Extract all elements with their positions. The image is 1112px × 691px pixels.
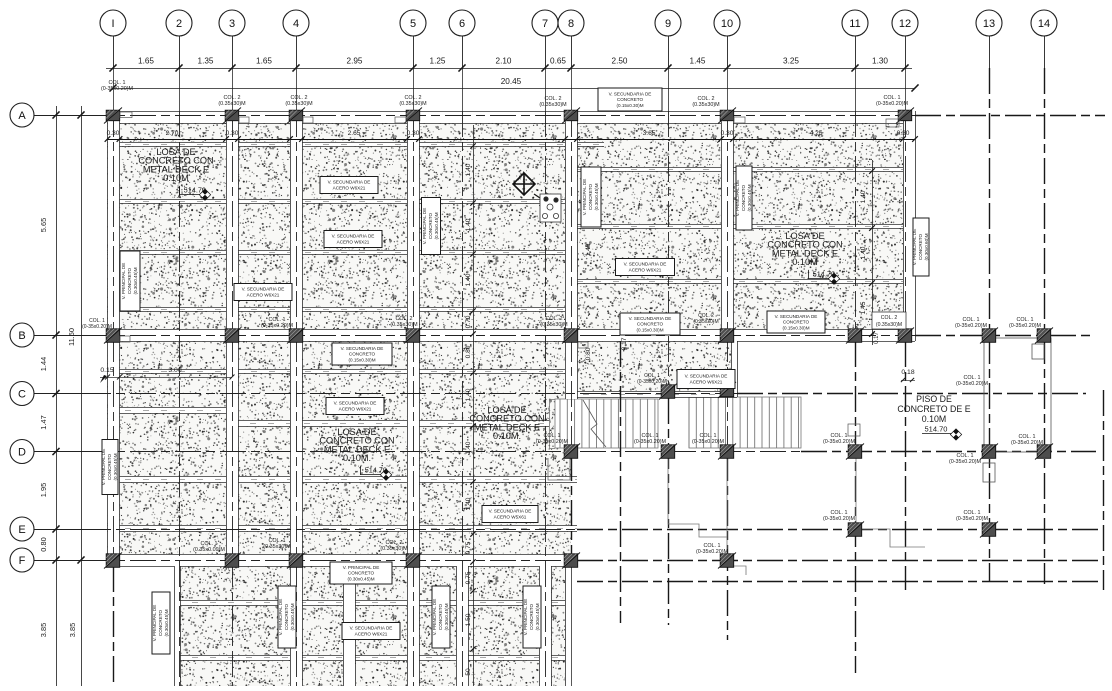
svg-text:I: I <box>111 18 114 30</box>
svg-text:(0-35x0.20)M: (0-35x0.20)M <box>696 549 729 555</box>
svg-text:0.75: 0.75 <box>465 541 472 554</box>
svg-text:COL. 1: COL. 1 <box>699 433 716 439</box>
svg-text:6: 6 <box>459 18 465 30</box>
svg-text:1.40: 1.40 <box>860 190 867 203</box>
svg-text:E: E <box>18 524 25 536</box>
svg-text:1.35: 1.35 <box>198 57 214 66</box>
svg-text:4.25: 4.25 <box>810 130 823 137</box>
svg-text:8: 8 <box>568 18 574 30</box>
svg-text:(0.15x0.30)M: (0.15x0.30)M <box>616 103 643 108</box>
svg-text:2.10: 2.10 <box>496 57 512 66</box>
svg-text:1.44: 1.44 <box>39 357 48 371</box>
svg-text:1.40: 1.40 <box>585 243 592 256</box>
svg-text:CONCRETO: CONCRETO <box>637 322 664 327</box>
svg-text:(0.30x0.45)M: (0.30x0.45)M <box>747 184 752 211</box>
svg-text:3.65: 3.65 <box>643 130 656 137</box>
svg-text:PISO DE: PISO DE <box>916 394 952 404</box>
svg-text:(0.30x0.45)M: (0.30x0.45)M <box>594 183 599 210</box>
svg-text:V. PRINCIPAL DE: V. PRINCIPAL DE <box>278 599 283 636</box>
svg-text:0.17: 0.17 <box>621 337 628 350</box>
svg-text:1.40: 1.40 <box>465 497 472 510</box>
svg-text:V. SECUNDARIA DE: V. SECUNDARIA DE <box>341 346 384 351</box>
svg-text:1.45: 1.45 <box>690 57 706 66</box>
svg-text:(0.35x0.09)M: (0.35x0.09)M <box>193 547 225 553</box>
svg-text:1.40: 1.40 <box>465 441 472 454</box>
svg-text:V. PRINCIPAL DE: V. PRINCIPAL DE <box>101 449 106 486</box>
svg-text:5.65: 5.65 <box>39 218 48 232</box>
svg-text:CONCRETO: CONCRETO <box>529 603 534 630</box>
svg-text:3.85: 3.85 <box>39 623 48 637</box>
svg-text:(0-35x0.20)M: (0-35x0.20)M <box>634 439 667 445</box>
svg-text:13: 13 <box>983 18 995 30</box>
svg-text:(0.30x0.45)M: (0.30x0.45)M <box>113 453 118 480</box>
svg-text:V. SECUNDARIA DE: V. SECUNDARIA DE <box>685 374 728 379</box>
svg-text:CONCRETO: CONCRETO <box>348 571 375 576</box>
svg-text:1.25: 1.25 <box>430 57 446 66</box>
svg-text:3.25: 3.25 <box>783 57 799 66</box>
svg-text:CONCRETO: CONCRETO <box>284 603 289 630</box>
svg-text:COL. 1: COL. 1 <box>703 543 720 549</box>
svg-text:(0.35x30)M: (0.35x30)M <box>218 101 246 107</box>
svg-text:V. PRINCIPAL DE: V. PRINCIPAL DE <box>912 229 917 266</box>
svg-text:(0-35x0.20)M: (0-35x0.20)M <box>82 324 112 330</box>
svg-text:(0.30x0.45)M: (0.30x0.45)M <box>444 603 449 630</box>
svg-text:10: 10 <box>721 18 733 30</box>
svg-text:CONCRETO: CONCRETO <box>617 97 644 102</box>
svg-text:0.30: 0.30 <box>107 130 120 137</box>
svg-text:COL. 1: COL. 1 <box>1018 434 1035 440</box>
svg-text:1.40: 1.40 <box>465 163 472 176</box>
svg-text:(0.30x0.45)M: (0.30x0.45)M <box>164 609 169 636</box>
svg-text:0.65: 0.65 <box>550 57 566 66</box>
svg-text:CONCRETO: CONCRETO <box>158 609 163 636</box>
svg-text:(0-35x0.20)M: (0-35x0.20)M <box>692 439 725 445</box>
svg-text:(0.35x30)M: (0.35x30)M <box>692 102 720 108</box>
svg-text:0.80: 0.80 <box>465 345 472 358</box>
svg-text:COL. 1: COL. 1 <box>641 433 658 439</box>
svg-text:50: 50 <box>465 668 472 676</box>
svg-text:CONCRETO: CONCRETO <box>438 603 443 630</box>
svg-text:0.70: 0.70 <box>465 315 472 328</box>
svg-text:11.50: 11.50 <box>67 328 76 346</box>
svg-text:COL. 2: COL. 2 <box>881 315 898 321</box>
svg-text:COL. 2: COL. 2 <box>544 96 561 102</box>
svg-text:CONCRETO: CONCRETO <box>107 453 112 480</box>
svg-text:ACERO W6X21: ACERO W6X21 <box>247 293 280 298</box>
svg-text:COL. 1: COL. 1 <box>830 433 847 439</box>
svg-text:(0.15x0.30)M: (0.15x0.30)M <box>348 357 375 362</box>
svg-text:(0.35x30)M: (0.35x30)M <box>693 319 718 325</box>
svg-text:1.47: 1.47 <box>39 415 48 429</box>
svg-text:(0-35x0.20)M: (0-35x0.20)M <box>955 323 988 329</box>
svg-text:3.85: 3.85 <box>68 623 77 637</box>
svg-text:0.30: 0.30 <box>407 130 420 137</box>
svg-text:20.45: 20.45 <box>501 77 522 86</box>
svg-text:V. SECUNDARIA DE: V. SECUNDARIA DE <box>334 401 377 406</box>
svg-text:(0.30x0.45)M: (0.30x0.45)M <box>535 603 540 630</box>
svg-text:COL. 1: COL. 1 <box>962 317 979 323</box>
svg-text:B: B <box>18 330 25 342</box>
svg-text:COL. 1: COL. 1 <box>200 541 217 547</box>
svg-text:5: 5 <box>410 18 416 30</box>
svg-text:COL. 1: COL. 1 <box>830 510 847 516</box>
svg-text:0.10M: 0.10M <box>922 414 946 424</box>
svg-text:COL. 1: COL. 1 <box>108 80 125 86</box>
svg-text:1.40: 1.40 <box>465 218 472 231</box>
svg-text:1.45: 1.45 <box>860 301 867 314</box>
svg-text:1.65: 1.65 <box>256 57 272 66</box>
svg-text:(0-35x0.20)M: (0-35x0.20)M <box>949 459 982 465</box>
svg-text:ACERO W6X21: ACERO W6X21 <box>333 186 366 191</box>
svg-text:2.50: 2.50 <box>612 57 628 66</box>
svg-text:0.10M: 0.10M <box>792 257 818 267</box>
svg-text:COL. 2: COL. 2 <box>404 95 421 101</box>
svg-text:0.10M.: 0.10M. <box>493 431 521 441</box>
svg-text:A: A <box>18 110 26 122</box>
svg-text:(0-35x0.20)M: (0-35x0.20)M <box>823 439 856 445</box>
svg-text:3.00: 3.00 <box>168 367 181 374</box>
svg-text:(0-35x0.20)M: (0-35x0.20)M <box>637 379 667 385</box>
svg-text:1.30: 1.30 <box>872 57 888 66</box>
svg-text:(0.35x30)M: (0.35x30)M <box>263 544 291 550</box>
svg-text:0.15: 0.15 <box>100 367 113 374</box>
svg-text:V. SECUNDARIA DE: V. SECUNDARIA DE <box>242 287 285 292</box>
svg-text:V. PRINCIPAL DE: V. PRINCIPAL DE <box>152 605 157 642</box>
svg-text:CONCRETO: CONCRETO <box>783 320 810 325</box>
svg-text:(0.30x0.45)M: (0.30x0.45)M <box>290 603 295 630</box>
svg-text:0.18: 0.18 <box>901 369 914 376</box>
svg-text:V. SECUNDARIA DE: V. SECUNDARIA DE <box>775 314 818 319</box>
svg-text:(0-35x0.20)M: (0-35x0.20)M <box>956 516 989 522</box>
svg-text:1.40: 1.40 <box>860 246 867 259</box>
svg-text:CONCRETO: CONCRETO <box>127 267 132 294</box>
svg-text:(0-35x0.20)M: (0-35x0.20)M <box>956 381 989 387</box>
svg-text:COL. 2: COL. 2 <box>697 96 714 102</box>
svg-text:(0.35x30)M: (0.35x30)M <box>876 322 902 328</box>
svg-text:V. PRINCIPAL DE: V. PRINCIPAL DE <box>523 599 528 636</box>
svg-text:(0.30x0.45)M: (0.30x0.45)M <box>347 576 374 581</box>
svg-text:COL. 2: COL. 2 <box>223 95 240 101</box>
svg-text:V. PRINCIPAL DE: V. PRINCIPAL DE <box>582 179 587 216</box>
svg-text:14: 14 <box>1038 18 1050 30</box>
svg-text:1.40: 1.40 <box>465 388 472 401</box>
svg-text:(0.30x0.60)M: (0.30x0.60)M <box>924 233 929 260</box>
svg-text:V. PRINCIPAL DE: V. PRINCIPAL DE <box>343 565 380 570</box>
svg-text:V. SECUNDARIA DE: V. SECUNDARIA DE <box>350 626 393 631</box>
svg-text:COL. 1: COL. 1 <box>963 375 980 381</box>
svg-text:C: C <box>18 388 26 400</box>
svg-text:(0-35x0.20)M: (0-35x0.20)M <box>823 516 856 522</box>
svg-text:1.65: 1.65 <box>138 57 154 66</box>
svg-text:7: 7 <box>542 18 548 30</box>
svg-text:(0.35x30)M: (0.35x30)M <box>285 101 313 107</box>
svg-text:CONCRETO: CONCRETO <box>741 184 746 211</box>
svg-text:(0.30x0.45)M: (0.30x0.45)M <box>133 267 138 294</box>
svg-text:V. PRINCIPAL DE: V. PRINCIPAL DE <box>735 180 740 217</box>
svg-text:COL. 2: COL. 2 <box>385 540 402 546</box>
svg-text:COL. 2: COL. 2 <box>290 95 307 101</box>
svg-text:ACERO W6X21: ACERO W6X21 <box>355 632 388 637</box>
svg-text:V. SECUNDARIA DE: V. SECUNDARIA DE <box>629 316 672 321</box>
svg-text:COL. 1: COL. 1 <box>963 510 980 516</box>
svg-text:(0.35x30)M: (0.35x30)M <box>380 546 408 552</box>
svg-text:(0-35x0.20)M: (0-35x0.20)M <box>1009 323 1042 329</box>
svg-text:V. SECUNDARIA DE: V. SECUNDARIA DE <box>328 180 371 185</box>
svg-text:V. SECUNDARIA DE: V. SECUNDARIA DE <box>332 234 375 239</box>
svg-text:ACERO W6X21: ACERO W6X21 <box>339 407 372 412</box>
svg-text:12: 12 <box>899 18 911 30</box>
svg-text:0.30: 0.30 <box>721 130 734 137</box>
svg-text:(0.35x30)M: (0.35x30)M <box>540 322 568 328</box>
svg-text:ACERO W6X21: ACERO W6X21 <box>629 268 662 273</box>
svg-text:CONCRETO: CONCRETO <box>588 183 593 210</box>
svg-text:(0.30x0.45)M: (0.30x0.45)M <box>434 212 439 239</box>
svg-text:CONCRETO: CONCRETO <box>428 212 433 239</box>
svg-text:V. PRINCIPAL DE: V. PRINCIPAL DE <box>422 208 427 245</box>
svg-text:(0.15x0.30)M: (0.15x0.30)M <box>636 327 663 332</box>
svg-text:V. SECUNDARIA DE: V. SECUNDARIA DE <box>624 262 667 267</box>
svg-text:4: 4 <box>293 18 299 30</box>
svg-text:(0.15x0.30)M: (0.15x0.30)M <box>782 325 809 330</box>
svg-text:0.17: 0.17 <box>874 332 880 344</box>
svg-text:(0.35x30)M: (0.35x30)M <box>399 101 427 107</box>
svg-text:CONCRETO: CONCRETO <box>349 352 376 357</box>
svg-text:(0-35x0.20)M: (0-35x0.20)M <box>536 439 569 445</box>
svg-text:COL. 2: COL. 2 <box>395 316 412 322</box>
svg-text:(0-35x0.20)M: (0-35x0.20)M <box>101 86 134 92</box>
svg-text:0.10M.: 0.10M. <box>343 453 371 463</box>
svg-text:(0-35x0.20)M: (0-35x0.20)M <box>1011 440 1044 446</box>
svg-text:V. SECUNDARIA DE: V. SECUNDARIA DE <box>489 509 532 514</box>
svg-text:0.75: 0.75 <box>465 571 472 584</box>
svg-text:CONCRETO DE E: CONCRETO DE E <box>897 404 970 414</box>
svg-text:COL. 1: COL. 1 <box>268 317 285 323</box>
svg-text:1.50: 1.50 <box>465 613 472 626</box>
svg-text:D: D <box>18 446 26 458</box>
svg-text:0.80: 0.80 <box>39 537 48 551</box>
svg-text:ACERO W6X21: ACERO W6X21 <box>337 240 370 245</box>
svg-text:COL. 1: COL. 1 <box>268 538 285 544</box>
svg-text:514.70: 514.70 <box>925 425 948 434</box>
svg-text:COL. 1: COL. 1 <box>1016 317 1033 323</box>
svg-text:2.70: 2.70 <box>166 130 179 137</box>
svg-text:2: 2 <box>176 18 182 30</box>
svg-text:2.65: 2.65 <box>348 130 361 137</box>
svg-text:ACERO W6X21: ACERO W6X21 <box>690 380 723 385</box>
svg-text:3: 3 <box>229 18 235 30</box>
svg-text:9: 9 <box>665 18 671 30</box>
svg-text:0.80: 0.80 <box>585 347 592 360</box>
svg-text:V. SECUNDARIA DE: V. SECUNDARIA DE <box>609 91 652 96</box>
svg-text:1.40: 1.40 <box>465 273 472 286</box>
svg-text:(0.35x30)M: (0.35x30)M <box>390 322 418 328</box>
svg-text:V. PRINCIPAL DE: V. PRINCIPAL DE <box>432 599 437 636</box>
svg-text:(0-35x0.20)M: (0-35x0.20)M <box>876 101 909 107</box>
svg-text:(0.35x30)M: (0.35x30)M <box>539 102 567 108</box>
svg-text:2.95: 2.95 <box>347 57 363 66</box>
svg-text:1.95: 1.95 <box>39 483 48 497</box>
svg-text:COL. 1: COL. 1 <box>543 433 560 439</box>
svg-text:COL. 1: COL. 1 <box>883 95 900 101</box>
svg-text:11: 11 <box>849 18 860 30</box>
svg-text:(0-35x0.20)M: (0-35x0.20)M <box>261 323 294 329</box>
svg-text:COL. 1: COL. 1 <box>956 453 973 459</box>
svg-text:0.30: 0.30 <box>897 130 910 137</box>
svg-text:0.30: 0.30 <box>226 130 239 137</box>
svg-text:CONCRETO: CONCRETO <box>918 233 923 260</box>
svg-text:ACERO W5X61: ACERO W5X61 <box>494 515 527 520</box>
svg-text:COL. 2: COL. 2 <box>545 316 562 322</box>
svg-text:F: F <box>19 555 26 567</box>
svg-text:0.10M: 0.10M <box>163 173 189 183</box>
svg-text:V. PRINCIPAL DE: V. PRINCIPAL DE <box>121 263 126 300</box>
